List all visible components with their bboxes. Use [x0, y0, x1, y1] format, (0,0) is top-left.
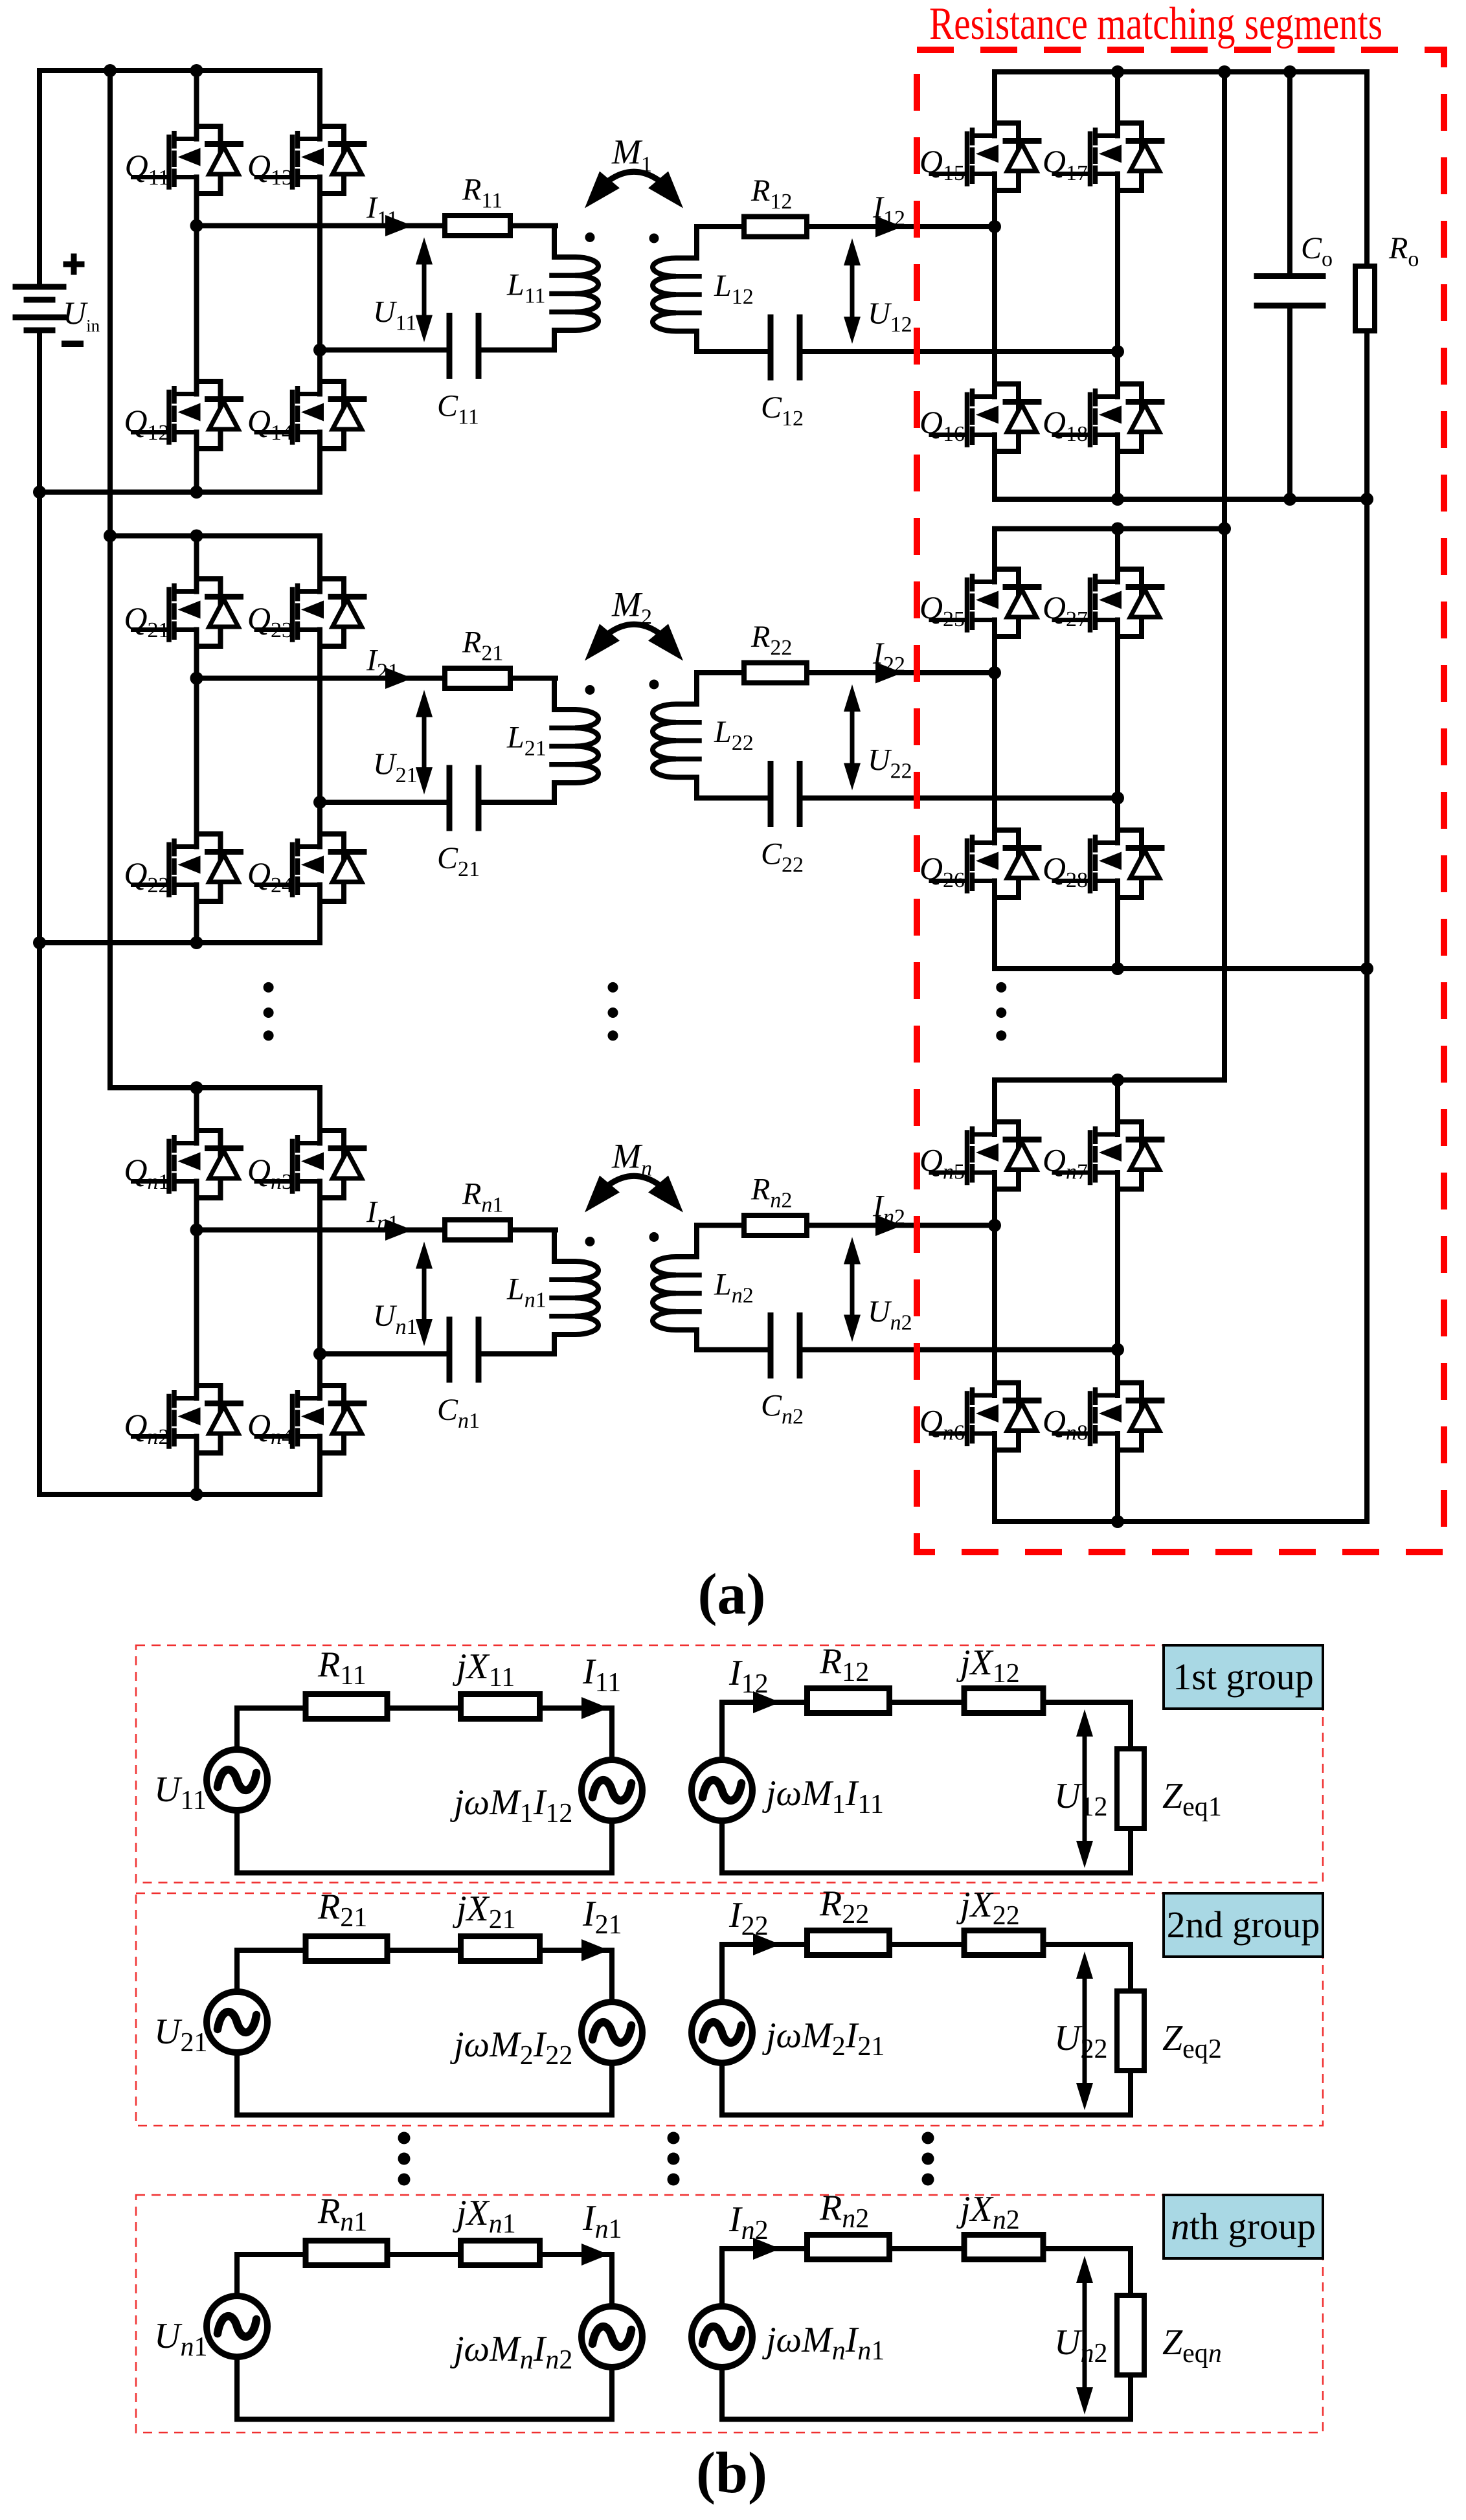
svg-text:Ro: Ro [1388, 231, 1419, 271]
wire right branch right loop 2 [1128, 1944, 1133, 2115]
wire right leg group 2 rectifier [1115, 529, 1120, 969]
transistor Q24 [256, 834, 364, 901]
svg-text:In2: In2 [728, 2199, 769, 2245]
positive rail x170 [107, 71, 113, 1088]
wire bottom left loop n [237, 2417, 612, 2422]
node bottom bus right group 1 x1726 [1111, 493, 1124, 506]
node bottom bus right x1992 [1283, 493, 1296, 506]
wire C22 line [697, 796, 1118, 801]
transistor Qn7 [1054, 1122, 1162, 1189]
transistor Qn8 [1054, 1383, 1162, 1450]
wire bottom bus group 1 right [995, 497, 1367, 502]
ellipsis dots left column [264, 982, 274, 993]
svg-text:I22: I22 [872, 636, 905, 677]
box label nth group [1164, 2195, 1323, 2258]
node inverter output group 2 [190, 672, 203, 685]
resistor Rn2 [807, 2235, 890, 2260]
node rectifier return group n [1111, 1344, 1124, 1356]
arrow I22 [875, 662, 903, 684]
wire right leg group 2 inverter [317, 536, 322, 943]
reactance jX11 [461, 1694, 540, 1719]
transistor Q26 [931, 830, 1039, 897]
capacitor C11 [449, 316, 479, 376]
wire top bus group 1 right [995, 69, 1367, 74]
polarity dot L21 [585, 685, 595, 695]
capacitor C21 [449, 768, 479, 828]
reactance jXn2 [964, 2235, 1043, 2260]
wire top bus group n left [110, 1085, 320, 1090]
arrow I21 [581, 1939, 609, 1961]
svg-text:U21: U21 [373, 747, 418, 787]
node rectifier input group 1 [988, 220, 1001, 233]
node top bus right x1726 [1111, 65, 1124, 78]
wire left leg group 1 rectifier [992, 72, 997, 499]
controlled source j&#969;MnIn2 left loop [581, 2306, 642, 2367]
resistor R22 [807, 1931, 890, 1955]
return rail right x2111 [1364, 499, 1370, 1522]
svg-text:In1: In1 [366, 1195, 399, 1235]
node inverter return group 2 [313, 796, 326, 809]
arrow Un2 [850, 1261, 855, 1319]
svg-text:jωM1I12: jωM1I12 [450, 1783, 572, 1828]
svg-text:(a): (a) [698, 1562, 766, 1626]
wire left leg group n inverter [194, 1088, 199, 1494]
node rectifier input group n [988, 1219, 1001, 1232]
node bottom bus group 1 x303 [190, 486, 203, 499]
svg-text:Un2: Un2 [868, 1295, 912, 1335]
label - minus [65, 341, 80, 347]
inductor L11 [513, 226, 598, 350]
resistor R21 [306, 1937, 387, 1961]
ellipsis dots right column [996, 982, 1006, 993]
svg-text:R12: R12 [819, 1641, 869, 1687]
resistor Rn1 [445, 1220, 510, 1240]
svg-text:Ln1: Ln1 [506, 1272, 547, 1312]
arrow mutual coupling Mn [609, 1176, 659, 1185]
transistor Q16 [931, 384, 1039, 451]
svg-text:Cn1: Cn1 [437, 1393, 480, 1433]
node bottom bus group 1 x61 [33, 486, 46, 499]
transistor Qn3 [256, 1131, 364, 1198]
arrow I12 [875, 216, 903, 238]
arrow U12 [850, 262, 855, 321]
svg-text:U12: U12 [1054, 1776, 1107, 1822]
node top bus right group 2 x1726 [1111, 523, 1124, 535]
polarity dot L11 [585, 232, 595, 242]
impedance Zeq1 [1117, 1749, 1144, 1828]
wire Cn2 line [697, 1347, 1118, 1353]
svg-text:jX11: jX11 [453, 1647, 515, 1693]
inductor L21 [513, 679, 598, 803]
arrow U12 [1083, 1733, 1087, 1845]
wire left branch right loop 1 [719, 1702, 725, 1873]
svg-text:Q11: Q11 [125, 148, 170, 190]
wire bottom bus group n left [39, 1492, 320, 1497]
node inverter return group 1 [313, 344, 326, 357]
wire In2 line [739, 1223, 995, 1228]
svg-text:I12: I12 [728, 1653, 769, 1699]
transistor Qn2 [133, 1386, 241, 1453]
wire In1 line [197, 1228, 556, 1233]
polarity dot Ln1 [585, 1237, 595, 1246]
svg-text:I12: I12 [872, 190, 905, 231]
svg-text:R11: R11 [317, 1645, 366, 1691]
node bottom bus group 2 x303 [190, 936, 203, 949]
wire bottom bus group n right [995, 1519, 1367, 1524]
voltage source Un1 [207, 2296, 267, 2357]
node inverter return group n [313, 1347, 326, 1360]
node top bus x170 [104, 64, 117, 77]
svg-text:Q13: Q13 [247, 148, 293, 190]
svg-text:L21: L21 [506, 721, 547, 761]
transistor Qn4 [256, 1386, 364, 1453]
svg-text:Qn5: Qn5 [919, 1142, 965, 1184]
node rectifier return group 1 [1111, 345, 1124, 358]
arrow Un2 [1083, 2279, 1087, 2391]
arrow mutual coupling M2 [609, 624, 659, 633]
wire C12 line [697, 349, 1118, 354]
wire I22 line [739, 670, 995, 675]
dashed box nth group [136, 2195, 1323, 2433]
polarity dot L22 [649, 680, 659, 690]
wire right branch left loop n [609, 2255, 615, 2420]
svg-text:I21: I21 [582, 1894, 622, 1940]
wire top right loop n [722, 2246, 1131, 2251]
voltage source U11 [207, 1749, 267, 1810]
ellipsis dots part b right [922, 2132, 934, 2144]
wire right leg group n rectifier [1115, 1080, 1120, 1522]
node bottom bus right group 2 x2111 [1360, 962, 1373, 975]
reactance jX12 [964, 1689, 1043, 1713]
polarity dot L12 [649, 234, 659, 243]
resistor Rn2 [744, 1215, 807, 1235]
battery Uin [16, 287, 63, 330]
svg-text:U11: U11 [154, 1770, 207, 1816]
inductor L22 [653, 673, 739, 798]
svg-text:I22: I22 [728, 1895, 769, 1941]
wire left branch Un1 [234, 2255, 240, 2420]
svg-text:Qn6: Qn6 [919, 1403, 965, 1445]
svg-text:2nd group: 2nd group [1167, 1904, 1320, 1946]
svg-text:Qn4: Qn4 [247, 1407, 293, 1449]
arrow I21 [385, 668, 412, 689]
wire bottom right loop n [722, 2417, 1131, 2422]
wire bottom right loop 1 [722, 1871, 1131, 1876]
svg-text:R21: R21 [462, 625, 503, 666]
svg-text:Q15: Q15 [919, 143, 965, 185]
wire bottom left loop 1 [237, 1871, 612, 1876]
node top bus right group n x1726 [1111, 1074, 1124, 1086]
resistor R22 [744, 663, 807, 683]
battery negative rail [37, 330, 42, 1494]
svg-text:U11: U11 [373, 295, 416, 335]
arrow In2 [753, 2238, 780, 2260]
svg-text:jXn1: jXn1 [453, 2193, 516, 2239]
svg-text:Q21: Q21 [124, 600, 169, 642]
svg-text:Qn3: Qn3 [247, 1152, 293, 1194]
transistor Q14 [256, 381, 364, 449]
svg-text:Un1: Un1 [373, 1299, 418, 1339]
wire top left loop 1 [237, 1705, 612, 1711]
ellipsis dots part b left [398, 2132, 411, 2144]
svg-text:jX12: jX12 [956, 1643, 1020, 1689]
svg-text:Qn8: Qn8 [1043, 1403, 1088, 1445]
svg-text:C12: C12 [761, 390, 804, 431]
resistor R12 [744, 217, 807, 237]
wire top left loop n [237, 2252, 612, 2257]
arrow Un1 [422, 1265, 427, 1323]
svg-text:Rn2: Rn2 [750, 1173, 792, 1213]
wire right branch left loop 1 [609, 1708, 615, 1873]
svg-text:R11: R11 [462, 173, 502, 213]
svg-text:C11: C11 [437, 389, 479, 429]
svg-text:In1: In1 [582, 2198, 622, 2244]
svg-text:Q24: Q24 [247, 855, 293, 897]
dashed box Resistance matching segments [917, 50, 1444, 1552]
wire right leg group 1 inverter [317, 71, 322, 492]
svg-text:Ln2: Ln2 [714, 1268, 754, 1308]
svg-text:C22: C22 [761, 837, 804, 877]
wire right branch right loop n [1128, 2249, 1133, 2420]
svg-text:Q25: Q25 [919, 589, 965, 631]
node bottom bus right group n x1726 [1111, 1515, 1124, 1528]
battery Uin positive wire [39, 71, 320, 287]
svg-text:Rn1: Rn1 [462, 1177, 503, 1217]
capacitor C12 [771, 317, 800, 377]
svg-text:Zeqn: Zeqn [1162, 2323, 1222, 2368]
svg-text:R12: R12 [750, 174, 792, 214]
wire bottom right loop 2 [722, 2113, 1131, 2118]
wire left leg group 2 inverter [194, 536, 199, 943]
ellipsis dots middle column [608, 982, 618, 993]
svg-text:Co: Co [1301, 231, 1333, 271]
wire right leg group 1 rectifier [1115, 72, 1120, 499]
ellipsis dots part b middle [668, 2132, 680, 2144]
svg-text:In2: In2 [872, 1189, 905, 1230]
reactance jX22 [964, 1931, 1043, 1955]
svg-text:(b): (b) [696, 2441, 767, 2505]
node top bus group n x303 [190, 1081, 203, 1094]
wire C11 line [320, 348, 554, 353]
transistor Q27 [1054, 569, 1162, 636]
svg-text:jωMnIn2: jωMnIn2 [450, 2329, 572, 2375]
controlled source j&#969;M1I12 left loop [581, 1760, 642, 1821]
wire C21 line [320, 800, 554, 805]
box label 1st group [1164, 1645, 1323, 1709]
transistor Q18 [1054, 384, 1162, 451]
resistor Ro branch wire top [1364, 72, 1370, 266]
wire right branch left loop 2 [609, 1950, 615, 2115]
arrow In1 [581, 2244, 609, 2266]
controlled source j&#969;M2I22 left loop [581, 2002, 642, 2063]
wire I12 line [739, 224, 995, 229]
resistor R11 [306, 1694, 387, 1719]
arrow U21 [422, 714, 427, 772]
wire top right loop 1 [722, 1700, 1131, 1705]
capacitor Cn2 [771, 1316, 800, 1376]
svg-text:U12: U12 [868, 297, 912, 337]
svg-text:U21: U21 [154, 2012, 207, 2058]
transistor Q23 [256, 579, 364, 646]
svg-text:jXn2: jXn2 [956, 2189, 1020, 2235]
node bottom bus right group 1 x2111 [1360, 493, 1373, 506]
svg-text:jX22: jX22 [956, 1885, 1020, 1931]
resistor R12 [807, 1689, 890, 1713]
svg-text:Q26: Q26 [919, 850, 965, 892]
svg-text:L11: L11 [506, 268, 545, 308]
svg-text:jX21: jX21 [453, 1889, 516, 1935]
svg-text:jωMnIn1: jωMnIn1 [762, 2320, 885, 2366]
svg-text:R22: R22 [819, 1884, 869, 1929]
svg-text:Qn1: Qn1 [124, 1152, 169, 1194]
node inverter output group 1 [190, 219, 203, 232]
label + plus [66, 256, 82, 272]
svg-text:Q12: Q12 [124, 403, 169, 445]
transistor Q13 [256, 126, 364, 194]
resistor Rn1 [306, 2241, 387, 2266]
wire top bus group 2 left [110, 534, 320, 539]
arrow I12 [753, 1691, 780, 1713]
svg-text:Q22: Q22 [124, 855, 169, 897]
capacitor Co [1257, 276, 1323, 306]
svg-text:Qn7: Qn7 [1043, 1142, 1088, 1184]
capacitor Co branch wire top [1287, 72, 1292, 275]
voltage source U21 [207, 1992, 267, 2053]
svg-text:Zeq2: Zeq2 [1162, 2018, 1222, 2064]
svg-text:Zeq1: Zeq1 [1162, 1776, 1222, 1822]
controlled source j&#969;M1I11 right loop [692, 1760, 752, 1821]
wire left leg group 2 rectifier [992, 529, 997, 969]
svg-text:Uin: Uin [63, 295, 100, 335]
capacitor Cn1 [449, 1320, 479, 1380]
impedance Zeq2 [1117, 1991, 1144, 2071]
svg-text:jωM1I11: jωM1I11 [762, 1773, 884, 1819]
svg-text:L12: L12 [714, 269, 754, 309]
controlled source j&#969;M2I21 right loop [692, 2002, 752, 2063]
svg-text:Un1: Un1 [154, 2316, 207, 2362]
wire left branch right loop n [719, 2249, 725, 2420]
transistor Q12 [133, 381, 241, 449]
resistor Ro branch wire bottom [1364, 331, 1370, 499]
svg-text:I11: I11 [582, 1652, 621, 1698]
svg-text:Un2: Un2 [1054, 2323, 1107, 2368]
wire top bus group 2 right [995, 526, 1224, 532]
impedance Zeqn [1117, 2295, 1144, 2375]
wire left branch right loop 2 [719, 1944, 725, 2115]
arrow In1 [385, 1219, 412, 1241]
node inverter output group n [190, 1224, 203, 1237]
polarity dot Ln2 [649, 1232, 659, 1242]
svg-text:I11: I11 [366, 191, 398, 231]
svg-text:Rn1: Rn1 [317, 2191, 367, 2237]
inductor Ln1 [513, 1230, 598, 1355]
svg-text:Resistance matching segments: Resistance matching segments [929, 0, 1382, 49]
capacitor C22 [771, 764, 800, 824]
dashed box 2nd group [136, 1893, 1323, 2126]
svg-text:Q17: Q17 [1043, 143, 1088, 185]
wire bottom bus group 2 left [39, 940, 320, 945]
wire top left loop 2 [237, 1948, 612, 1953]
transistor Q28 [1054, 830, 1162, 897]
positive rail right x1891 [1222, 72, 1227, 1080]
arrow I11 [385, 215, 412, 236]
node top bus right x1891 [1218, 65, 1231, 78]
svg-text:Q23: Q23 [247, 600, 293, 642]
wire left leg group 1 inverter [194, 71, 199, 492]
transistor Q11 [133, 126, 241, 194]
node top bus right x1992 [1283, 65, 1296, 78]
node bottom bus group n x303 [190, 1488, 203, 1501]
wire bottom left loop 2 [237, 2113, 612, 2118]
svg-text:U22: U22 [1054, 2018, 1107, 2064]
reactance jX21 [461, 1937, 540, 1961]
arrow U11 [422, 261, 427, 319]
arrow U22 [850, 708, 855, 767]
node top bus group 2 x170 [104, 530, 117, 543]
transistor Q25 [931, 569, 1039, 636]
wire right branch right loop 1 [1128, 1702, 1133, 1873]
svg-text:1st group: 1st group [1173, 1656, 1314, 1698]
svg-text:R22: R22 [750, 620, 792, 660]
svg-text:C21: C21 [437, 841, 480, 881]
svg-text:Q18: Q18 [1043, 404, 1088, 446]
svg-text:Qn2: Qn2 [124, 1407, 169, 1449]
transistor Qn6 [931, 1383, 1039, 1450]
wire I21 line [197, 676, 556, 681]
svg-text:Q27: Q27 [1043, 589, 1088, 631]
capacitor Co branch wire bottom [1287, 307, 1292, 499]
node top bus right group 2 x1891 [1218, 523, 1231, 535]
svg-text:jωM2I22: jωM2I22 [450, 2025, 572, 2071]
node top bus x303 [190, 64, 203, 77]
svg-text:Q16: Q16 [919, 404, 965, 446]
wire top bus group n right [995, 1077, 1224, 1083]
transistor Qn5 [931, 1122, 1039, 1189]
arrow In2 [875, 1215, 903, 1236]
node rectifier return group 2 [1111, 792, 1124, 805]
svg-text:jωM2I21: jωM2I21 [762, 2016, 885, 2062]
node rectifier input group 2 [988, 666, 1001, 679]
arrow I22 [753, 1933, 780, 1955]
transistor Q22 [133, 834, 241, 901]
transistor Qn1 [133, 1131, 241, 1198]
reactance jXn1 [461, 2241, 540, 2266]
resistor R21 [445, 668, 510, 688]
transistor Q21 [133, 579, 241, 646]
arrow U22 [1083, 1975, 1087, 2087]
wire top right loop 2 [722, 1942, 1131, 1947]
dashed box 1st group [136, 1645, 1323, 1883]
svg-text:Q28: Q28 [1043, 850, 1088, 892]
transistor Q15 [931, 123, 1039, 190]
controlled source j&#969;MnIn1 right loop [692, 2306, 752, 2367]
box label 2nd group [1164, 1893, 1323, 1957]
node bottom bus right group 2 x1726 [1111, 962, 1124, 975]
wire left branch U11 [234, 1708, 240, 1873]
resistor Ro [1355, 266, 1375, 331]
svg-text:Q14: Q14 [247, 403, 293, 445]
svg-text:nth group: nth group [1171, 2205, 1316, 2247]
wire left leg group n rectifier [992, 1080, 997, 1522]
wire bottom bus group 2 right [995, 966, 1367, 971]
node top bus group 2 x303 [190, 530, 203, 543]
svg-text:L22: L22 [714, 715, 754, 755]
inductor L12 [653, 227, 739, 352]
arrow I11 [581, 1697, 609, 1719]
wire bottom bus group 1 left [39, 489, 320, 495]
resistor R11 [445, 216, 510, 236]
transistor Q17 [1054, 123, 1162, 190]
